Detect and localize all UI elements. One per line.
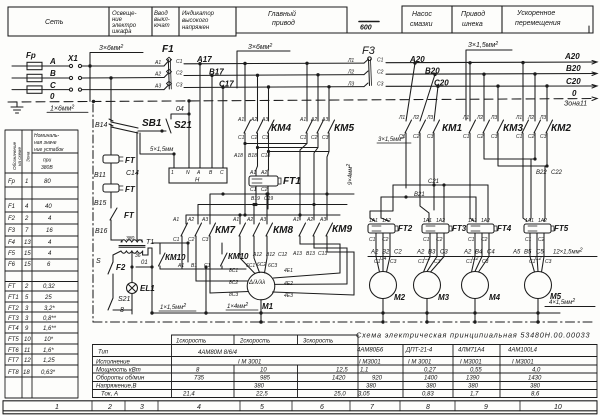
svg-text:С1: С1: [377, 58, 384, 64]
wire drop to SB1: [110, 78, 112, 122]
wires A1 B1 C1 row: [160, 243, 246, 269]
svg-text:1430: 1430: [528, 376, 542, 382]
rail C21 left loop to FT2: [370, 185, 393, 221]
feed 3x1.5mm2 right overline: [466, 50, 512, 120]
LEFT TABLE: [5, 130, 78, 398]
svg-text:А20: А20: [564, 52, 580, 61]
svg-text:X1: X1: [67, 54, 78, 63]
svg-text:С1: С1: [463, 134, 470, 140]
svg-text:при: при: [43, 158, 52, 164]
switch F3 interlock bar: [369, 59, 370, 86]
svg-text:А1: А1: [299, 117, 306, 123]
svg-text:Н: Н: [195, 178, 200, 184]
svg-text:М1: М1: [262, 302, 274, 311]
contactor KM10 mid: [221, 243, 228, 269]
svg-text:В: В: [209, 170, 213, 176]
svg-text:380: 380: [126, 236, 135, 242]
enclosure dashed vertical: [92, 104, 94, 322]
svg-text:F3: F3: [362, 45, 376, 57]
svg-text:Главный: Главный: [268, 10, 296, 18]
svg-text:1А2: 1А2: [436, 218, 445, 224]
svg-text:С20: С20: [434, 78, 449, 87]
thermal relay FT4: [467, 224, 494, 233]
contactor KM5 poles: [300, 63, 313, 220]
svg-text:FТ8: FТ8: [8, 370, 19, 376]
svg-text:С1: С1: [250, 187, 257, 193]
motor M1 leads right 4E: [273, 273, 355, 295]
svg-text:Зона: Зона: [26, 151, 31, 162]
svg-text:С1: С1: [173, 237, 180, 243]
svg-text:1400: 1400: [424, 376, 438, 382]
header box Насос смазки: [402, 6, 452, 33]
arrow C20: [592, 85, 597, 89]
svg-text:КМ8: КМ8: [273, 225, 293, 236]
svg-text:С21: С21: [428, 179, 439, 185]
svg-text:В17: В17: [209, 68, 224, 77]
svg-text:8,6: 8,6: [531, 392, 540, 398]
svg-text:4: 4: [48, 240, 52, 246]
svg-text:Л3: Л3: [426, 115, 433, 121]
LIGHTING CIRCUIT: [103, 64, 227, 314]
header box Привод шнека: [452, 6, 502, 33]
wire 01: [136, 248, 152, 267]
feed 3x6mm2 mid overline: [237, 51, 290, 88]
rail B22: [484, 133, 535, 221]
svg-text:С2: С2: [311, 135, 318, 141]
svg-text:Ток, А: Ток, А: [101, 392, 118, 398]
svg-text:6С3: 6С3: [268, 263, 277, 269]
SWITCH F3: [364, 57, 372, 87]
rail B19 y204.5: [198, 201, 347, 224]
svg-text:4,0: 4,0: [532, 368, 541, 374]
svg-text:Л1: Л1: [347, 58, 354, 64]
link bars KM4-KM5: [245, 144, 329, 152]
header box Главный привод: [236, 7, 347, 33]
svg-text:С3: С3: [491, 134, 498, 140]
fuse FP pole C: [27, 86, 42, 93]
MAIN BUSES: [8, 50, 597, 120]
BOTTOM TABLE: [93, 335, 598, 398]
thermal relay FT3: [422, 224, 449, 233]
svg-text:1: 1: [55, 404, 59, 411]
header box Вводн выключатель: [152, 7, 179, 36]
CONTACTOR ROW KM4 KM5 KM1 KM3 KM2: [244, 63, 553, 221]
svg-text:ючат: ючат: [154, 23, 170, 29]
wire secondary left: [113, 251, 121, 262]
svg-text:380: 380: [468, 384, 479, 390]
svg-text:F2: F2: [8, 216, 16, 222]
svg-text:А20: А20: [409, 55, 425, 64]
svg-text:4АМ100L4: 4АМ100L4: [508, 348, 538, 354]
rail C21: [393, 184, 488, 186]
svg-text:1А2: 1А2: [481, 218, 490, 224]
svg-text:А17: А17: [196, 55, 212, 64]
svg-text:С3: С3: [545, 259, 552, 265]
rail C19 y194: [210, 186, 354, 224]
svg-text:FТ2: FТ2: [398, 224, 413, 233]
svg-text:В11: В11: [94, 172, 106, 179]
svg-text:КМ10: КМ10: [228, 252, 249, 261]
THERMAL RELAYS FT2-FT5: [368, 224, 554, 233]
svg-text:Сеть: Сеть: [45, 19, 64, 26]
svg-text:А2: А2: [246, 217, 253, 223]
rail B21 left drop to FT2: [381, 197, 389, 221]
svg-text:Л2: Л2: [412, 115, 419, 121]
svg-text:920: 920: [372, 376, 383, 382]
svg-text:привод: привод: [272, 19, 295, 27]
svg-text:9: 9: [25, 326, 29, 332]
svg-text:9: 9: [484, 404, 488, 411]
svg-text:FТ7: FТ7: [8, 358, 19, 364]
svg-text:3×1,5мм2: 3×1,5мм2: [468, 41, 498, 49]
wire C14: [137, 132, 142, 242]
svg-text:S: S: [96, 258, 101, 265]
svg-text:А1: А1: [249, 170, 256, 176]
svg-text:FТ3: FТ3: [452, 224, 467, 233]
svg-text:FТ: FТ: [124, 211, 135, 220]
svg-text:1скорость: 1скорость: [176, 339, 206, 345]
svg-text:С3: С3: [440, 250, 448, 256]
svg-text:В12: В12: [266, 252, 275, 258]
switch F3 hinge circle: [368, 57, 372, 61]
svg-text:3: 3: [25, 306, 29, 312]
wire phase B bus: [12, 74, 597, 79]
contactor KM10 left: [152, 243, 188, 269]
motor M3: [414, 272, 441, 299]
enclosure dashed horizontal: [93, 321, 595, 323]
svg-text:3скорость: 3скорость: [303, 339, 333, 345]
switch F1 blade hinges: [167, 57, 172, 86]
contactor KM4 poles: [244, 64, 251, 144]
svg-text:В3: В3: [428, 250, 436, 256]
svg-text:Ускоренное: Ускоренное: [516, 10, 555, 17]
svg-text:В19: В19: [251, 196, 260, 202]
wire KM1 p2 to FT3: [420, 199, 429, 222]
svg-text:С1: С1: [369, 237, 376, 243]
svg-text:С1: С1: [176, 59, 183, 65]
svg-text:FТ: FТ: [125, 156, 136, 165]
svg-text:перемещения: перемещения: [515, 20, 561, 27]
svg-text:Привод: Привод: [461, 10, 485, 18]
svg-text:4АМ80М 8/6/4: 4АМ80М 8/6/4: [198, 350, 238, 356]
svg-text:С3: С3: [427, 134, 434, 140]
rail B21: [381, 196, 476, 198]
switch S fuse F2: [108, 262, 113, 298]
wire A18 bypass: [244, 144, 246, 194]
svg-text:25,0: 25,0: [333, 392, 346, 398]
svg-text:1420: 1420: [332, 376, 346, 382]
svg-text:S21: S21: [174, 120, 192, 131]
svg-text:С3: С3: [176, 83, 183, 89]
svg-text:6С1: 6С1: [246, 263, 255, 269]
svg-text:1390: 1390: [466, 376, 480, 382]
svg-text:шкафа: шкафа: [112, 29, 132, 35]
svg-text:В21: В21: [414, 192, 425, 198]
wire B18 to FT1: [256, 148, 258, 177]
svg-text:FТ4: FТ4: [497, 224, 512, 233]
svg-text:10*: 10*: [44, 337, 54, 343]
H pins to buses: [189, 64, 223, 168]
svg-text:А18: А18: [233, 153, 243, 159]
svg-text:А: А: [196, 170, 201, 176]
svg-text:С2: С2: [424, 256, 431, 262]
bottom table grid: [93, 335, 598, 398]
header box Индикатор высокого напряжен: [179, 7, 236, 36]
svg-text:1×6мм2: 1×6мм2: [50, 105, 74, 113]
svg-text:смазки: смазки: [410, 21, 433, 28]
svg-text:В4: В4: [475, 250, 483, 256]
svg-text:8: 8: [426, 404, 430, 411]
svg-text:шнека: шнека: [462, 21, 483, 28]
svg-text:FТ4: FТ4: [8, 326, 19, 332]
svg-text:Тип: Тип: [98, 350, 109, 356]
svg-text:А2: А2: [310, 117, 317, 123]
svg-text:1А1: 1А1: [369, 218, 378, 224]
transformer T1 secondary: [121, 251, 143, 253]
svg-text:С: С: [50, 81, 56, 90]
svg-text:КМ3: КМ3: [503, 123, 523, 134]
svg-text:N: N: [186, 170, 190, 176]
transformer T1 core: [119, 246, 145, 248]
svg-text:С12: С12: [278, 252, 287, 258]
svg-text:FТ1: FТ1: [8, 295, 19, 301]
svg-text:ная значе: ная значе: [34, 140, 57, 146]
svg-text:380: 380: [426, 384, 437, 390]
fuse FT b: [103, 184, 119, 192]
svg-text:600: 600: [360, 25, 372, 32]
contactor KM8 poles: [239, 223, 273, 258]
svg-text:S21: S21: [118, 296, 131, 303]
svg-text:3×1,5мм2: 3×1,5мм2: [378, 135, 404, 143]
svg-text:Л2: Л2: [527, 115, 534, 121]
svg-text:4: 4: [48, 251, 52, 257]
arrow 0: [592, 97, 597, 101]
thermal relay FT5: [524, 224, 551, 233]
svg-text:1,6*: 1,6*: [43, 348, 54, 354]
svg-text:напряжен: напряжен: [182, 25, 210, 31]
svg-text:4: 4: [197, 404, 201, 411]
svg-text:В13: В13: [306, 251, 315, 257]
svg-text:F5: F5: [8, 251, 16, 257]
rail B21 right drop to FT4: [475, 197, 477, 222]
svg-text:1×4мм2: 1×4мм2: [227, 302, 248, 310]
svg-text:С13: С13: [318, 251, 327, 257]
svg-text:С5: С5: [536, 250, 544, 256]
svg-text:380: 380: [366, 384, 377, 390]
svg-text:С1: С1: [525, 237, 532, 243]
svg-text:6: 6: [47, 262, 51, 268]
wire return right: [151, 248, 153, 313]
svg-text:13: 13: [24, 240, 31, 246]
svg-text:04: 04: [176, 106, 184, 113]
svg-text:6С2: 6С2: [257, 262, 266, 268]
svg-text:Индикатор: Индикатор: [182, 11, 215, 17]
svg-text:С: С: [220, 170, 224, 176]
left table grid: [5, 130, 78, 398]
svg-text:4Е2: 4Е2: [284, 281, 293, 287]
wire C18 to FT1: [267, 152, 270, 177]
svg-text:8С2: 8С2: [229, 280, 238, 286]
svg-text:А2: А2: [250, 117, 257, 123]
arrow B20: [592, 72, 597, 76]
svg-text:С1: С1: [238, 135, 245, 141]
svg-text:I М 3001: I М 3001: [408, 360, 431, 366]
contactor KM1 poles: [405, 63, 415, 188]
svg-text:А2: А2: [370, 250, 379, 256]
svg-text:А12: А12: [252, 252, 262, 258]
svg-text:С19: С19: [264, 196, 273, 202]
svg-text:0,83: 0,83: [422, 392, 434, 398]
svg-text:3×6мм2: 3×6мм2: [99, 44, 123, 52]
junction dots on buses: [88, 64, 91, 67]
svg-text:Л3: Л3: [490, 115, 497, 121]
svg-text:12,5: 12,5: [336, 368, 348, 374]
svg-text:КМ5: КМ5: [334, 123, 354, 134]
svg-text:8С3: 8С3: [229, 292, 238, 298]
svg-text:В14: В14: [95, 122, 108, 129]
svg-text:А13: А13: [292, 251, 302, 257]
ZONE STRIP: [3, 401, 597, 414]
svg-text:Л2: Л2: [476, 115, 483, 121]
switch F3 3-pole blades: [364, 60, 368, 87]
svg-text:FТ5: FТ5: [8, 337, 19, 343]
svg-text:1,25: 1,25: [43, 358, 55, 364]
svg-text:1: 1: [171, 170, 174, 176]
svg-text:5: 5: [25, 295, 29, 301]
svg-text:С3: С3: [322, 135, 329, 141]
svg-text:Л1: Л1: [462, 115, 469, 121]
svg-text:10: 10: [260, 368, 267, 374]
svg-text:А3: А3: [154, 84, 161, 90]
svg-text:С3: С3: [377, 82, 384, 88]
svg-text:С3: С3: [262, 135, 269, 141]
svg-text:1: 1: [25, 179, 28, 185]
label 4x1.5 line: [545, 306, 595, 308]
motor M1 bottom lead: [260, 300, 262, 322]
svg-text:4: 4: [25, 204, 29, 210]
svg-text:11: 11: [24, 348, 30, 354]
svg-text:4Е3: 4Е3: [284, 293, 293, 299]
svg-text:36: 36: [135, 253, 141, 259]
svg-text:12: 12: [24, 358, 31, 364]
wire B14 column: [110, 124, 112, 155]
svg-text:2скорость: 2скорость: [239, 339, 270, 345]
svg-text:1А1: 1А1: [423, 218, 432, 224]
svg-text:Л3: Л3: [347, 82, 354, 88]
svg-text:С3: С3: [434, 259, 441, 265]
svg-text:22,5: 22,5: [255, 392, 268, 398]
svg-text:0,8**: 0,8**: [43, 316, 57, 322]
svg-text:В2: В2: [382, 250, 390, 256]
rail C22: [498, 133, 547, 221]
rail A18 y215: [186, 193, 340, 224]
svg-text:Исполнение: Исполнение: [96, 360, 130, 366]
svg-text:В15: В15: [94, 200, 107, 207]
svg-text:3×6мм2: 3×6мм2: [248, 43, 272, 51]
svg-text:С1: С1: [516, 134, 523, 140]
thermal contact FT c: [110, 208, 122, 242]
svg-text:2: 2: [107, 404, 112, 411]
svg-text:С1: С1: [468, 237, 475, 243]
svg-text:В22: В22: [536, 170, 547, 176]
svg-text:Л1: Л1: [398, 115, 405, 121]
svg-text:С1: С1: [423, 237, 430, 243]
transformer T1 primary: [121, 240, 143, 242]
arrow A20: [592, 61, 597, 65]
svg-text:4АМ80Б6: 4АМ80Б6: [357, 348, 384, 354]
svg-text:С2: С2: [394, 250, 402, 256]
header box Освещение электрошкафа: [109, 7, 152, 36]
svg-text:А1: А1: [237, 117, 244, 123]
svg-text:А2: А2: [306, 217, 313, 223]
svg-text:КМ9: КМ9: [332, 224, 352, 235]
CONTACTORS KM7 KM8 KM9: [181, 223, 354, 295]
switch F1 3-pole blades: [164, 62, 168, 90]
svg-text:1,6**: 1,6**: [43, 326, 57, 332]
svg-text:3: 3: [25, 316, 29, 322]
label 12x1.5 line: [368, 256, 597, 258]
label box 600: [359, 21, 379, 23]
svg-text:А2: А2: [187, 217, 194, 223]
svg-text:1А1: 1А1: [525, 218, 534, 224]
switch S21 lower: [108, 298, 132, 310]
header box Сеть: [8, 7, 109, 36]
svg-text:С2: С2: [472, 256, 479, 262]
svg-text:380: 380: [254, 384, 265, 390]
svg-text:9×4мм2: 9×4мм2: [346, 164, 354, 185]
svg-text:F1: F1: [8, 204, 15, 210]
svg-text:на схеме: на схеме: [17, 147, 22, 166]
svg-text:А2: А2: [154, 72, 161, 78]
SWITCH F1: [164, 57, 172, 89]
svg-text:2: 2: [24, 284, 29, 290]
svg-text:М4: М4: [489, 293, 501, 302]
svg-text:FТ6: FТ6: [8, 348, 19, 354]
svg-text:Номиналь-: Номиналь-: [34, 133, 60, 139]
svg-text:С2: С2: [413, 134, 420, 140]
ground symbol: [11, 102, 23, 113]
svg-text:Δ/λ/λλ: Δ/λ/λλ: [248, 280, 265, 286]
svg-text:С2: С2: [535, 256, 542, 262]
svg-text:F2: F2: [116, 263, 126, 272]
svg-text:С3: С3: [482, 259, 489, 265]
svg-text:А3: А3: [321, 117, 328, 123]
svg-text:А1: А1: [172, 217, 179, 223]
svg-text:В: В: [50, 69, 56, 78]
svg-text:А1: А1: [232, 217, 239, 223]
svg-text:5: 5: [260, 404, 264, 411]
svg-text:0,27: 0,27: [424, 368, 436, 374]
thermal relay FT1: [249, 176, 278, 186]
svg-text:40: 40: [45, 204, 52, 210]
svg-text:С2: С2: [377, 69, 384, 75]
svg-text:3,2*: 3,2*: [44, 306, 55, 312]
motor M5: [525, 272, 552, 299]
svg-text:А1: А1: [292, 217, 299, 223]
svg-text:С2: С2: [176, 71, 183, 77]
svg-text:Fр: Fр: [26, 51, 36, 60]
svg-text:10: 10: [24, 337, 31, 343]
svg-text:SB1: SB1: [142, 118, 162, 129]
svg-text:ЕL1: ЕL1: [140, 284, 155, 293]
motor M2: [370, 272, 397, 299]
svg-text:С22: С22: [551, 170, 563, 176]
svg-text:Насос: Насос: [412, 11, 432, 18]
contactor KM9 poles: [299, 223, 354, 295]
svg-text:3: 3: [140, 404, 144, 411]
svg-text:В20: В20: [566, 64, 581, 73]
svg-text:ДПТ-21-4: ДПТ-21-4: [405, 348, 433, 354]
